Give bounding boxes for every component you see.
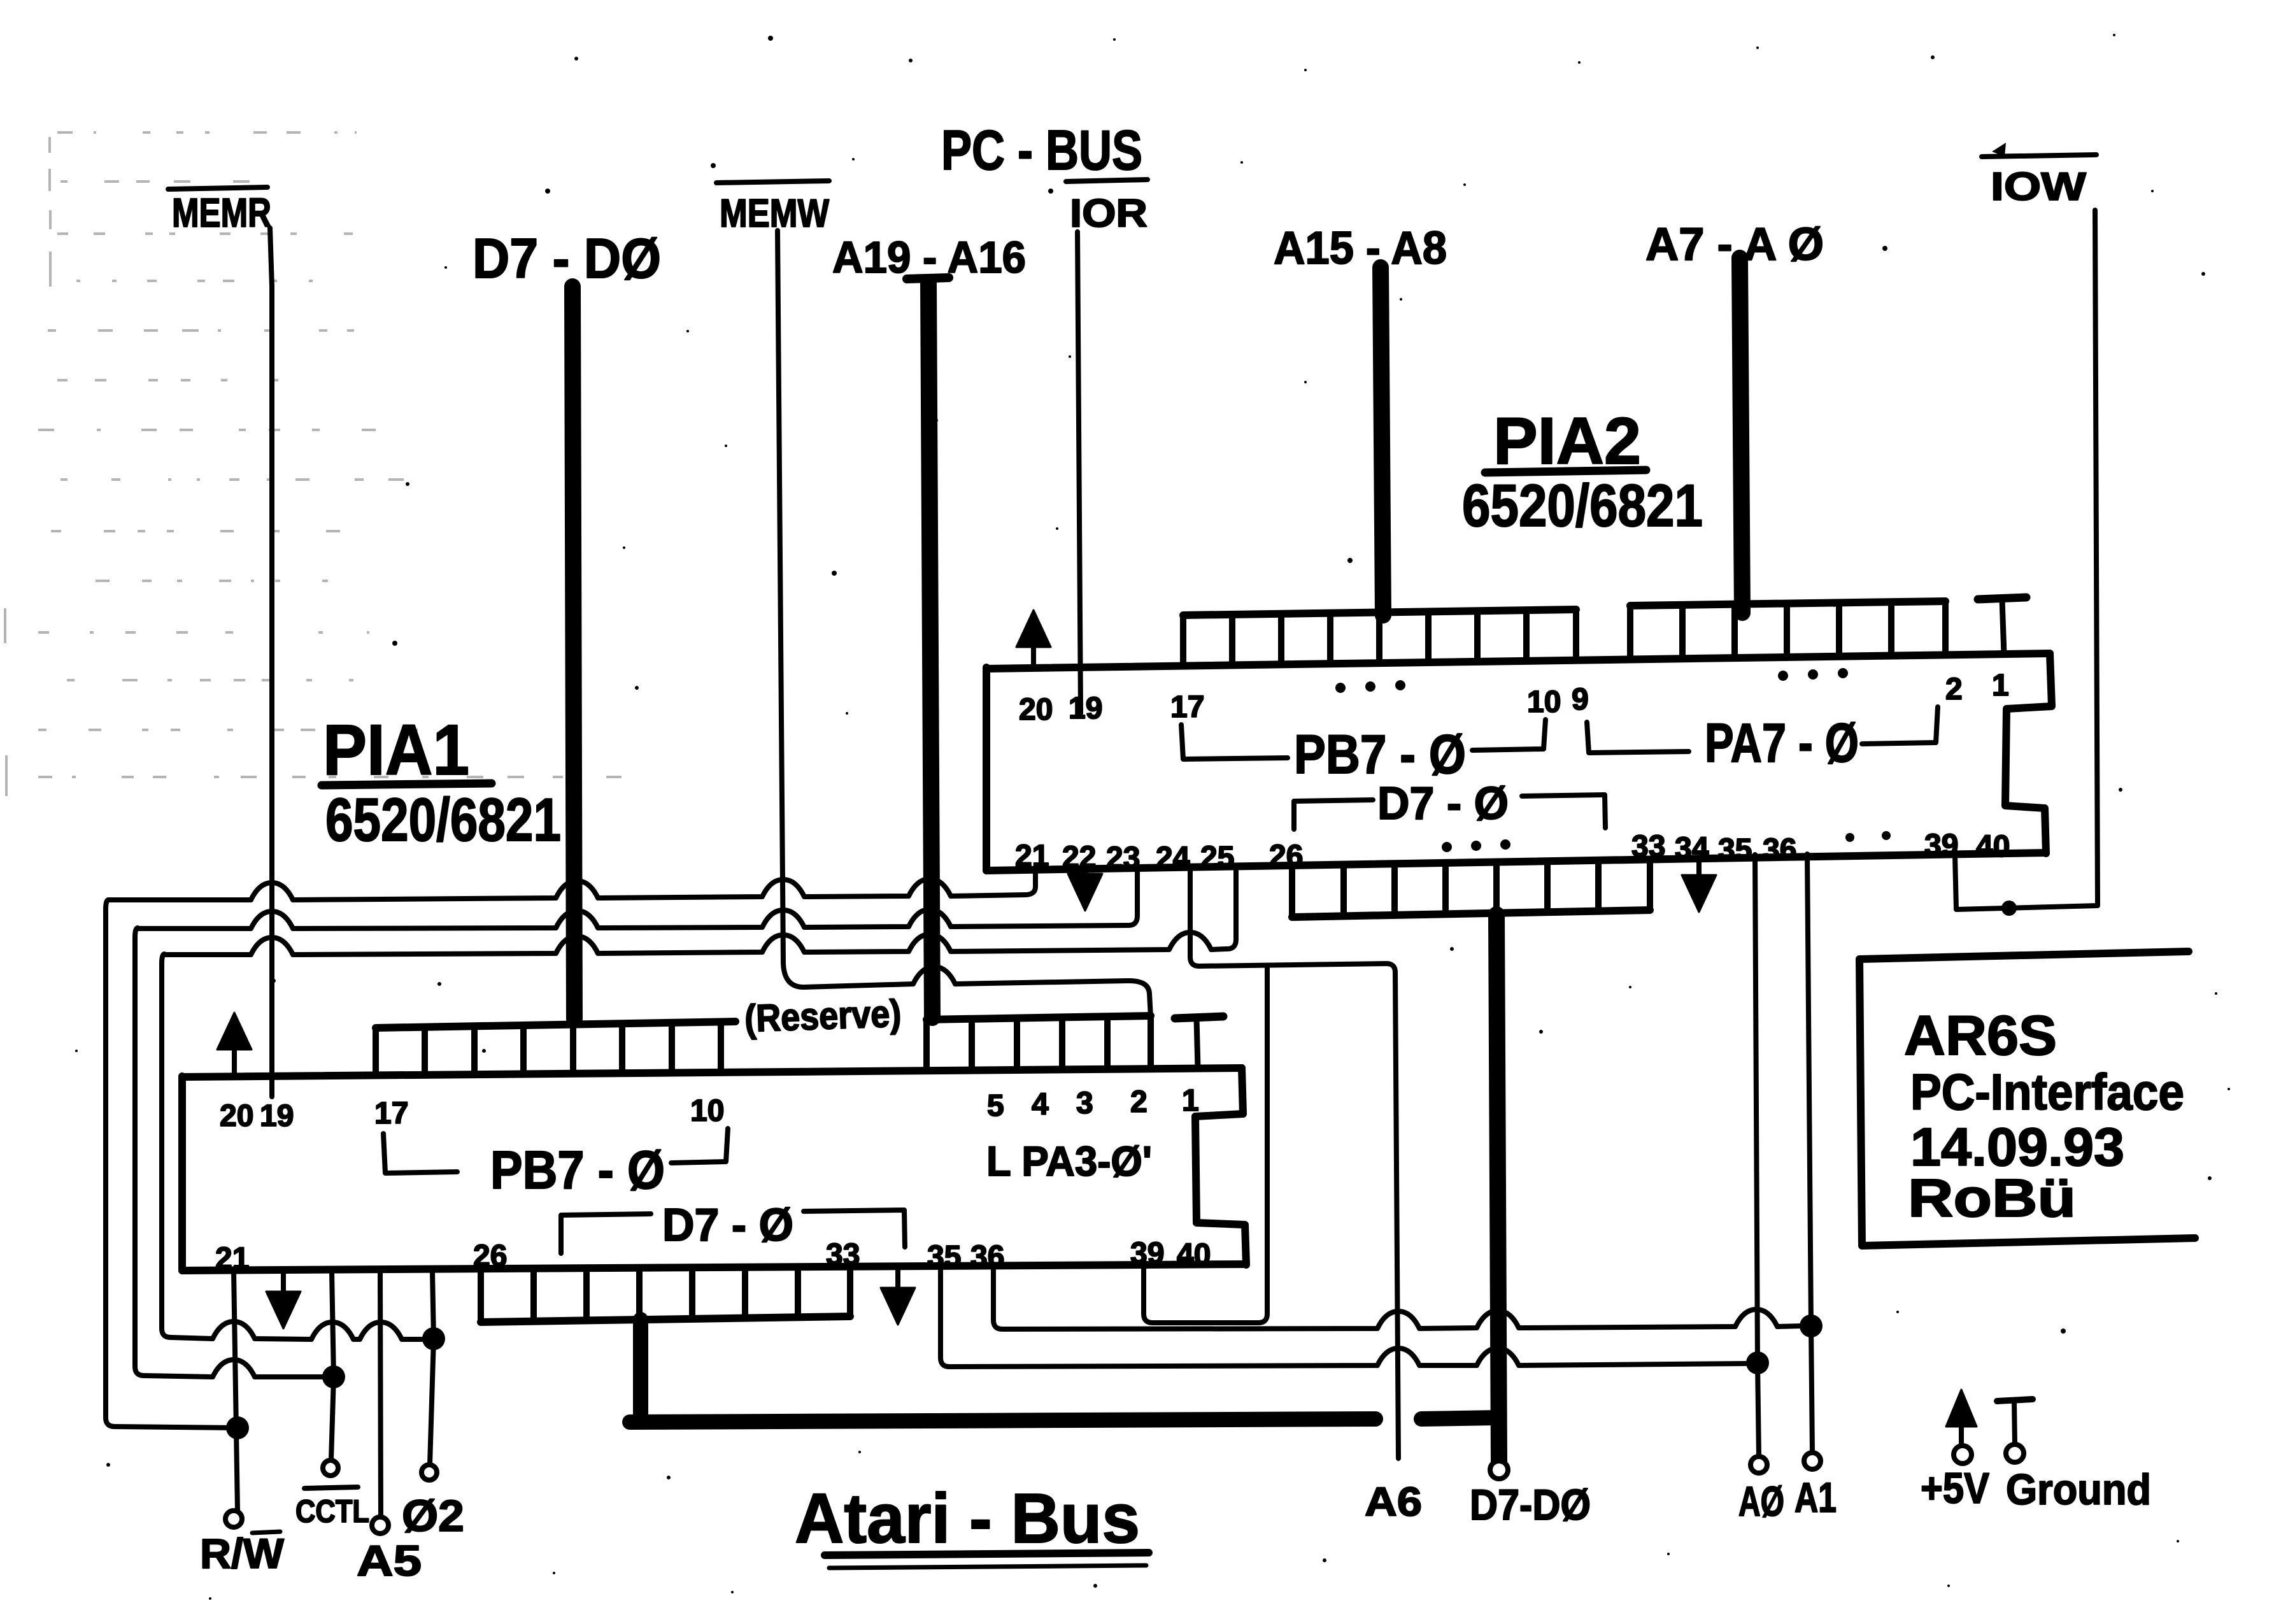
arrow up PIA2 pin 20 (+5V) [1031,642,1036,667]
arrow +5V [1959,1421,1964,1447]
junction O2 [422,1327,445,1350]
svg-text:26: 26 [473,1239,507,1273]
terminal A5 [372,1517,388,1534]
wire MEMW to PIA1 reserve comb [778,231,1151,1017]
PIA1 top pin comb PB7-0 [376,1022,735,1028]
svg-text:34: 34 [1675,832,1709,865]
svg-text:6520/6821: 6520/6821 [325,786,561,854]
svg-text:33: 33 [826,1238,860,1272]
bus wire D7-D0 thick [572,287,574,1019]
bus wire A7-A0 thick [1740,258,1742,613]
PA7 bracket left [1587,722,1689,753]
svg-text:(Reserve): (Reserve) [744,992,902,1040]
wire v3 down [162,954,171,1337]
wire R/W: PIA1 pin21 down [234,1272,238,1511]
svg-text:AØ: AØ [1738,1478,1784,1525]
svg-text:36: 36 [970,1240,1004,1274]
bus riser from PIA1 D7 comb [633,1320,648,1421]
svg-text:RoBü: RoBü [1908,1168,2076,1228]
ground tie PIA1 top right [1175,1016,1223,1018]
svg-text:35: 35 [1718,833,1752,867]
svg-text:2: 2 [1945,673,1963,706]
wire A0: PIA1 pin35 right [941,1266,949,1367]
svg-text:36: 36 [1763,833,1796,867]
svg-text:L PA3-Ø': L PA3-Ø' [986,1137,1152,1185]
svg-text:17: 17 [1170,690,1204,724]
svg-text:25: 25 [1200,841,1234,874]
svg-text:Ø2: Ø2 [402,1491,464,1541]
wire v2 right to CCTL junction [144,1360,334,1377]
PB7 bracket right PIA1 [671,1129,728,1163]
svg-text:PC - BUS: PC - BUS [941,118,1142,182]
svg-text:19: 19 [260,1099,294,1133]
svg-text:R/W: R/W [200,1530,285,1577]
arrow up PIA1 pin 20 (+5V) [232,1044,237,1076]
wire v2 down [135,928,144,1376]
svg-text:IOR: IOR [1070,192,1148,236]
svg-text:+5V: +5V [1921,1464,1989,1513]
PIA2 body [986,653,2050,871]
svg-text:5: 5 [987,1089,1004,1123]
MEMW overline [716,181,829,183]
svg-text:Atari - Bus: Atari - Bus [795,1479,1140,1558]
svg-text:35: 35 [927,1240,961,1274]
svg-text:4: 4 [1032,1088,1049,1122]
ellipsis dots [1335,668,1848,693]
wire A1: PIA1 pin36 right [993,1266,1002,1329]
PB7 bracket left PIA1 [383,1134,457,1173]
ground tie PIA2 top right [1978,597,2026,599]
symbol Ground [1997,1399,2033,1401]
PA7 bracket right [1862,707,1938,744]
arrow down PIA1 pin 22 [281,1272,286,1297]
MEMR overline [168,187,267,189]
svg-text:IOW: IOW [1991,165,2087,209]
PIA2 bottom pin comb D7-0 [1292,910,1650,917]
svg-text:22: 22 [1062,841,1096,874]
wire v1 down to R/W junction [106,900,238,1428]
wire IOR to PIA2 pin 19 [1077,232,1081,713]
wire A0 line right [949,1348,1749,1367]
wire A1 line right [1002,1309,1802,1329]
svg-text:21: 21 [1015,839,1049,873]
PIA2 top pin comb PA7-0 [1630,601,1945,606]
terminal A0 [1751,1457,1767,1473]
svg-text:20: 20 [220,1099,253,1133]
svg-text:PB7 - Ø: PB7 - Ø [1294,724,1466,785]
IOR overline [1066,180,1148,182]
wire net A6: PIA2 pin24 / PIA1 pin39 hook / A6 [1190,867,1398,1458]
terminal A1 [1804,1453,1821,1469]
bus wire A19-A16 thick [928,282,932,1018]
svg-text:PB7 - Ø: PB7 - Ø [490,1140,665,1200]
Atari-Bus underline 1 [825,1553,1149,1555]
wire L2 PIA2.23 left [138,909,1127,929]
arrow down PIA2 pin 22 [1083,869,1088,879]
D7 bracket left PIA1 [561,1214,651,1253]
svg-text:6520/6821: 6520/6821 [1462,472,1703,539]
junction on IOW hook [2001,901,2017,916]
wire PIA2 pin36 down to A1 [1807,854,1811,1326]
svg-text:PIA1: PIA1 [323,710,469,790]
D7 bracket left PIA2 [1294,800,1373,829]
svg-text:40: 40 [1976,830,2010,864]
PIA2 top pin comb PB7-0 [1183,609,1576,615]
PIA1 top pin comb PA3-0 reserve [927,1016,1151,1020]
wire v3 right to O2 junction [171,1321,434,1339]
svg-text:A15 - A8: A15 - A8 [1274,223,1447,274]
wire L3 PIA2.25 left [164,932,1226,955]
svg-text:MEMR: MEMR [172,190,271,236]
PIA2 right notch [2005,653,2052,853]
wire A0 down [1758,1363,1759,1457]
svg-text:D7 - DØ: D7 - DØ [473,227,661,290]
svg-text:24: 24 [1156,841,1190,875]
PIA1 underline [322,783,492,785]
svg-text:D7 - Ø: D7 - Ø [662,1200,793,1251]
terminal R/W [225,1511,242,1527]
svg-text:9: 9 [1572,683,1589,716]
PIA1 bottom pin comb D7-0 [481,1316,850,1322]
svg-text:A1: A1 [1794,1474,1837,1521]
wire A5: PIA1 pin24 down [380,1272,381,1517]
box AR6S PC-Interface [1859,951,2195,1246]
PB7 bracket left [1181,725,1288,759]
arrow down PIA2 pin 34 [1696,860,1702,880]
svg-text:1: 1 [1182,1084,1199,1118]
svg-text:A6: A6 [1365,1479,1422,1525]
svg-text:1: 1 [1992,669,2009,702]
R/W overline on W [252,1532,280,1533]
svg-text:10: 10 [690,1094,724,1128]
svg-text:PC-Interface: PC-Interface [1910,1064,2184,1120]
terminal D7-D0 Atari [1490,1461,1508,1479]
wire PIA2 pin35 down to A0 [1755,855,1758,1363]
D7 bracket right PIA1 [804,1210,905,1247]
svg-text:AR6S: AR6S [1904,1004,2057,1067]
wire MEMR to PIA1 pin 19 [270,228,272,1097]
Atari-Bus underline 2 [829,1565,1146,1568]
wire PIA1 pin39 hook [1144,965,1267,1323]
D7 bracket right PIA2 [1522,795,1605,828]
junction A1 [1800,1314,1823,1337]
terminal Ground [2006,1444,2024,1462]
arrow down PIA1 pin 34 [895,1267,900,1293]
svg-text:40: 40 [1177,1238,1211,1272]
PB7 bracket right [1472,720,1546,750]
terminal O2 [422,1465,437,1480]
svg-text:20: 20 [1019,693,1053,727]
A19 bus top tee [907,278,949,279]
junction A0 [1746,1351,1769,1374]
svg-text:26: 26 [1269,839,1303,873]
svg-text:39: 39 [1924,829,1958,862]
wire CCTL: PIA1 pin23 down [331,1272,334,1460]
svg-text:A5: A5 [357,1537,422,1585]
svg-text:17: 17 [374,1097,408,1130]
wire O2: PIA1 pin25 down [430,1272,434,1464]
junction R/W [226,1416,249,1439]
svg-text:39: 39 [1130,1237,1164,1271]
wire A1 down [1811,1326,1812,1453]
svg-text:19: 19 [1069,692,1102,725]
wire L1 PIA2.21 left [108,879,1025,900]
svg-text:3: 3 [1076,1086,1093,1120]
terminal CCTL [323,1460,338,1476]
svg-text:2: 2 [1130,1085,1148,1119]
svg-text:CCTL: CCTL [295,1493,369,1529]
svg-text:D7-DØ: D7-DØ [1470,1481,1591,1529]
IOW overline [1982,155,2096,157]
PIA2 underline [1485,470,1646,473]
bus wire A15-A8 thick [1381,267,1383,615]
wire IOW to PIA2 pins 39-40 [1955,210,2098,909]
PIA1 body [182,1068,1246,1271]
CCTL overline [304,1487,358,1488]
svg-text:MEMW: MEMW [720,192,829,236]
bus wire D7-D0 thick vertical (Atari) [1496,915,1499,1462]
PIA1 right notch [1195,1068,1246,1265]
terminal +5V [1954,1446,1972,1464]
svg-text:PA7 - Ø: PA7 - Ø [1705,713,1859,774]
svg-text:10: 10 [1527,685,1561,719]
junction CCTL [322,1365,345,1388]
svg-text:D7 - Ø: D7 - Ø [1377,778,1509,829]
svg-text:Ground: Ground [2006,1465,2151,1514]
bus Atari D7-D0 thick horizontal [630,1419,1375,1422]
